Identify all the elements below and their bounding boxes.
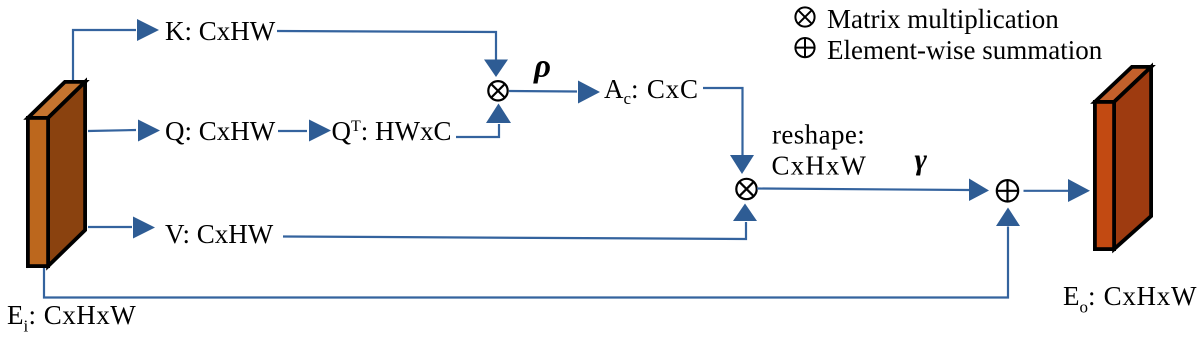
wire: V to op 2 (elbow up): [283, 222, 746, 239]
legend: matrix multiplication symbol: [795, 7, 814, 26]
wire: summation op to E_o: [1024, 190, 1069, 192]
element-wise summation op (circle with plus): [997, 180, 1018, 201]
matrix multiplication op 2 (circle with X): [736, 179, 756, 199]
legend: element-wise summation symbol: [795, 38, 814, 57]
svg-text:ρ: ρ: [533, 49, 551, 85]
svg-text:: CxHxW: : CxHxW: [1088, 281, 1197, 311]
matrix multiplication op 1 (circle with X): [488, 81, 507, 100]
wire: op 1 to A_c: [509, 90, 577, 93]
wire: E_i top to K arrow: [73, 30, 136, 86]
arrowhead up into op 2 bottom: [733, 204, 757, 222]
arrowhead down into op 1: [484, 60, 508, 78]
arrowhead into E_o box: [1068, 179, 1090, 202]
arrowhead into Q label: [138, 120, 160, 142]
svg-text:K: CxHW: K: CxHW: [165, 16, 276, 46]
arrowhead into Q transpose label: [309, 120, 331, 142]
svg-text:: CxHxW: : CxHxW: [29, 300, 137, 330]
svg-text:Element-wise summation: Element-wise summation: [827, 35, 1103, 65]
wire: K label to matrix-multiplication op 1 (elbow down): [277, 31, 496, 62]
arrowhead down into op 2: [730, 155, 754, 174]
wire: Q to Q transpose: [278, 130, 307, 132]
wire: A_c to matrix-multiplication op 2 (elbow down): [703, 88, 743, 156]
wire: Q^T to op 1 (elbow up): [456, 124, 499, 137]
wire: op 2 to summation op: [757, 189, 969, 191]
svg-text:Q: CxHW: Q: CxHW: [165, 116, 276, 146]
svg-text:o: o: [1080, 298, 1089, 317]
output feature map E_o (3D slab): [1095, 67, 1151, 249]
arrowhead up into op 1 bottom: [486, 104, 511, 124]
wire: E_i to Q arrow: [88, 130, 136, 131]
svg-text:E: E: [1063, 281, 1080, 311]
arrowhead into summation op: [969, 179, 989, 202]
arrowhead into K label: [137, 19, 159, 41]
svg-text:V: CxHW: V: CxHW: [165, 219, 274, 249]
svg-text:CxHxW: CxHxW: [772, 151, 868, 181]
svg-text:γ: γ: [915, 143, 928, 176]
wire: E_i skip connection along bottom to summation op: [44, 227, 1008, 298]
svg-text:QT: HWxC: QT: HWxC: [332, 116, 452, 146]
svg-text:E: E: [7, 300, 24, 330]
wire: E_i to V arrow: [88, 226, 132, 228]
svg-text:: CxC: : CxC: [631, 74, 699, 104]
arrowhead into A_c label: [578, 81, 600, 104]
svg-text:reshape:: reshape:: [772, 120, 865, 150]
arrowhead into V label: [133, 217, 155, 239]
input feature map E_i (3D slab): [28, 82, 85, 266]
svg-text:Matrix multiplication: Matrix multiplication: [827, 4, 1059, 34]
svg-text:A: A: [604, 74, 624, 104]
arrowhead up into summation op bottom: [996, 208, 1020, 227]
